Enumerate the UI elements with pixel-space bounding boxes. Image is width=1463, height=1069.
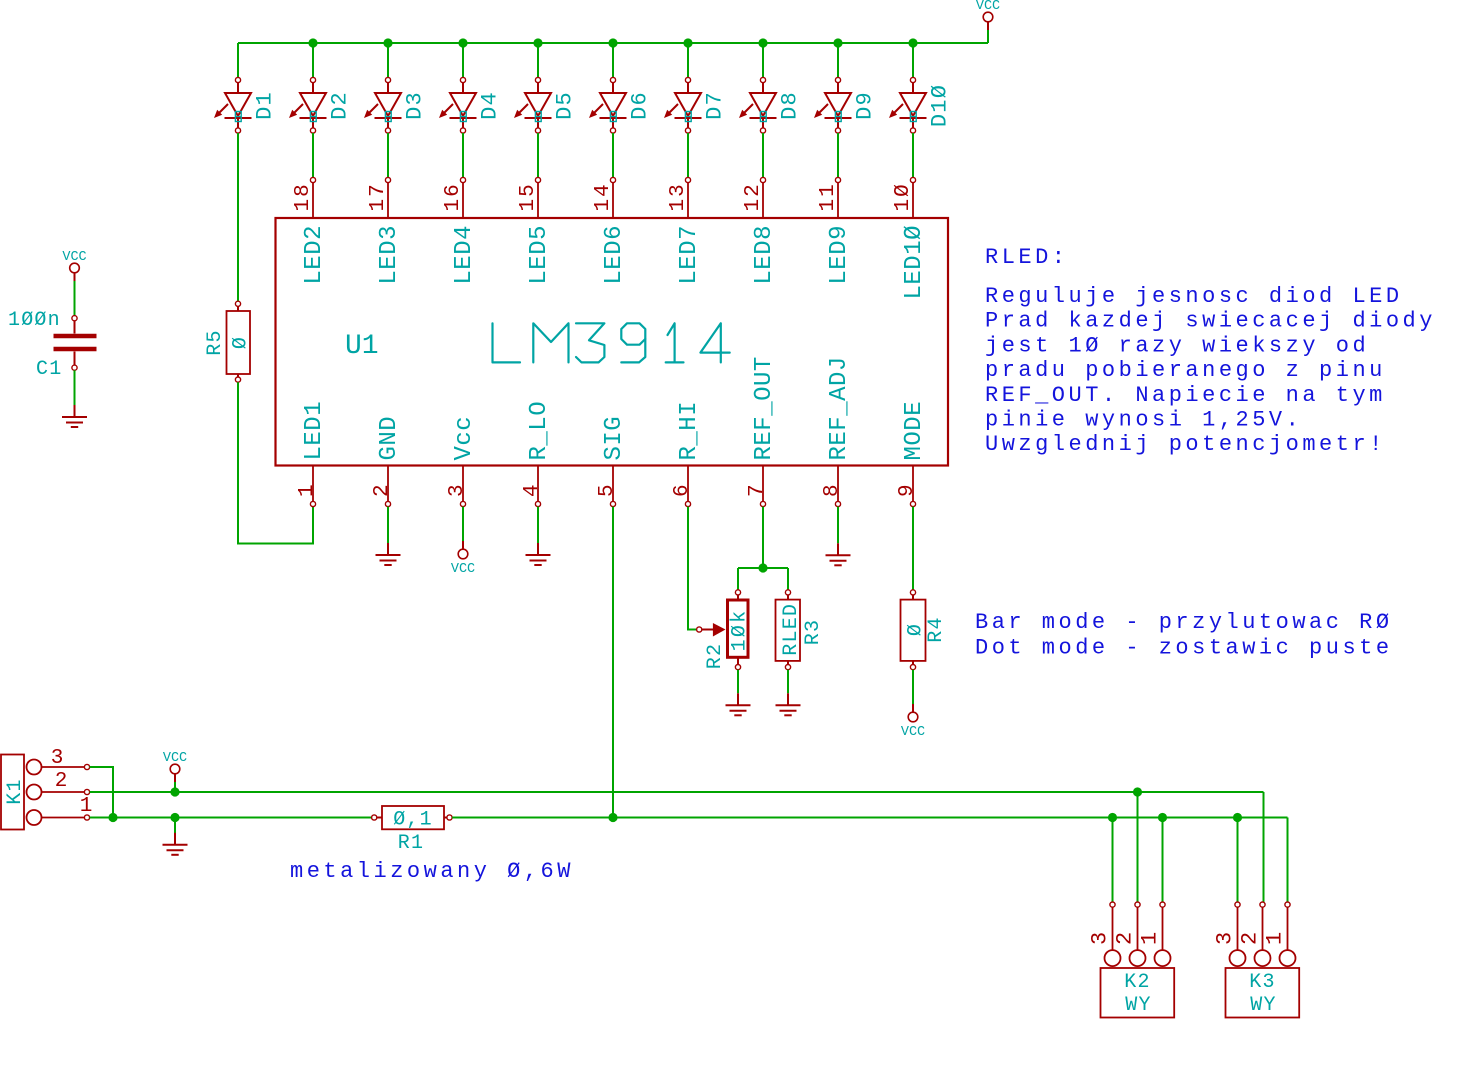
IC U1 LM3914 body	[276, 218, 949, 466]
ground at pin 2	[376, 543, 401, 565]
svg-text:Ø: Ø	[230, 336, 253, 349]
svg-text:Reguluje jesnosc diod LED: Reguluje jesnosc diod LED	[985, 284, 1403, 309]
wire LED to pin x=913	[912, 133, 914, 177]
svg-text:K1: K1	[4, 778, 27, 804]
junction rail x=838	[833, 38, 842, 47]
junction SIG on net	[608, 813, 617, 822]
LED D1	[214, 43, 278, 133]
svg-text:17: 17	[367, 182, 390, 211]
svg-text:REF_OUT. Napiecie na tym: REF_OUT. Napiecie na tym	[985, 383, 1386, 408]
pin 18 (LED2)	[292, 177, 328, 284]
LED D3	[364, 43, 428, 133]
svg-text:LED4: LED4	[451, 225, 478, 285]
svg-text:D9: D9	[853, 91, 878, 120]
svg-text:1Øk: 1Øk	[729, 609, 752, 652]
svg-text:18: 18	[292, 182, 315, 211]
wire pin8 to ground	[837, 507, 839, 544]
wire VCC to C1	[74, 281, 76, 316]
svg-text:D1Ø: D1Ø	[928, 84, 953, 127]
svg-text:K3: K3	[1249, 971, 1275, 994]
note RLED explanation text	[985, 245, 1436, 457]
svg-text:3: 3	[51, 747, 64, 770]
wire LED to pin x=463	[462, 133, 464, 177]
LED D5	[514, 43, 578, 133]
svg-text:1ØØn: 1ØØn	[8, 309, 61, 332]
wire LED to pin x=763	[762, 133, 764, 177]
svg-text:12: 12	[742, 182, 765, 211]
svg-text:D4: D4	[478, 91, 503, 120]
svg-text:VCC: VCC	[901, 725, 925, 740]
wire LED to pin x=313	[312, 133, 314, 177]
value LM3914 (stroke glyphs)	[493, 323, 730, 362]
ground at R2	[726, 693, 751, 715]
wire R4 to VCC	[912, 670, 914, 708]
wire K1 pin2 net (long)	[90, 791, 1264, 793]
wire C1 to ground	[74, 370, 76, 405]
svg-text:R_HI: R_HI	[676, 401, 703, 461]
svg-text:16: 16	[442, 182, 465, 211]
svg-text:14: 14	[592, 182, 615, 211]
wire to K3 pin3	[1237, 818, 1239, 903]
wire node to R2	[737, 568, 739, 590]
junction rail x=388	[383, 38, 392, 47]
svg-text:9: 9	[896, 482, 919, 497]
wire pin9 to R4	[912, 507, 914, 590]
wire pin7 to node	[762, 507, 764, 568]
ground at pin 8	[826, 543, 851, 565]
pin 10 (LED10)	[892, 177, 928, 299]
junction rail x=913	[908, 38, 917, 47]
wire node to R3	[787, 568, 789, 590]
ground at R3	[776, 693, 801, 715]
svg-text:LED1: LED1	[301, 401, 328, 461]
junction rail x=538	[533, 38, 542, 47]
svg-text:D3: D3	[403, 91, 428, 120]
wire to K3 pin2	[1263, 792, 1265, 902]
pin 7 (REF_OUT)	[746, 356, 778, 506]
svg-text:R5: R5	[204, 329, 227, 355]
svg-text:Ø,1: Ø,1	[393, 809, 433, 832]
power VCC near K1	[163, 751, 187, 782]
pin 14 (LED6)	[592, 177, 628, 284]
LED D2	[289, 43, 353, 133]
connector K3 (WY)	[1213, 902, 1300, 1018]
svg-text:5: 5	[596, 482, 619, 497]
wire to K2 pin2	[1137, 792, 1139, 902]
junction rail x=688	[683, 38, 692, 47]
svg-text:REF_ADJ: REF_ADJ	[826, 356, 853, 460]
potentiometer R2 value 10k	[697, 590, 752, 670]
wire pin1 net to R1	[90, 817, 372, 819]
svg-text:LED2: LED2	[301, 225, 328, 285]
svg-text:2: 2	[1113, 932, 1138, 945]
wire LED to pin x=388	[387, 133, 389, 177]
svg-text:2: 2	[1238, 932, 1263, 945]
wire pin2 to ground	[387, 507, 389, 543]
svg-text:C1: C1	[36, 358, 62, 381]
wire LED to pin x=838	[837, 133, 839, 177]
svg-text:jest 1Ø razy wiekszy od: jest 1Ø razy wiekszy od	[985, 333, 1369, 358]
junction K2 pin1	[1158, 813, 1167, 822]
LED D4	[439, 43, 503, 133]
svg-text:REF_OUT: REF_OUT	[751, 356, 778, 460]
svg-text:3: 3	[1088, 932, 1113, 945]
wire VCC rail	[238, 42, 988, 44]
svg-text:R4: R4	[925, 616, 948, 642]
svg-text:Uwzglednij potencjometr!: Uwzglednij potencjometr!	[985, 432, 1386, 457]
junction rail x=763	[758, 38, 767, 47]
pin 2 (GND)	[371, 416, 403, 507]
svg-text:pradu pobieranego z pinu: pradu pobieranego z pinu	[985, 358, 1386, 383]
junction K1 pin3/pin1	[108, 813, 117, 822]
svg-text:VCC: VCC	[976, 0, 1000, 14]
wire LED to pin x=613	[612, 133, 614, 177]
svg-text:metalizowany Ø,6W: metalizowany Ø,6W	[290, 859, 574, 884]
svg-text:Vcc: Vcc	[451, 416, 478, 461]
svg-text:8: 8	[821, 482, 844, 497]
note Bar/Dot mode text	[975, 610, 1393, 661]
svg-text:R_LO: R_LO	[526, 401, 553, 461]
svg-text:11: 11	[817, 182, 840, 211]
svg-text:1: 1	[80, 795, 93, 818]
wire to K3 pin1	[1287, 818, 1289, 903]
pin 9 (MODE)	[896, 401, 928, 507]
pin 16 (LED4)	[442, 177, 478, 284]
wire to K2 pin3	[1112, 818, 1114, 903]
wire pin4 to ground	[537, 507, 539, 543]
junction rail x=313	[308, 38, 317, 47]
ground near K1	[163, 833, 188, 855]
wire LED to pin x=538	[537, 133, 539, 177]
resistor R5 value 0	[204, 301, 253, 382]
junction rail x=613	[608, 38, 617, 47]
LED D7	[664, 43, 728, 133]
svg-text:Prad kazdej swiecacej diody: Prad kazdej swiecacej diody	[985, 309, 1436, 334]
svg-text:3: 3	[446, 482, 469, 497]
svg-text:2: 2	[55, 770, 68, 793]
svg-text:R3: R3	[802, 619, 825, 645]
svg-text:MODE: MODE	[901, 401, 928, 461]
svg-text:R2: R2	[704, 643, 727, 669]
svg-text:K2: K2	[1124, 971, 1150, 994]
LED D8	[739, 43, 803, 133]
svg-text:WY: WY	[1250, 994, 1276, 1017]
svg-text:6: 6	[671, 482, 694, 497]
svg-text:D6: D6	[628, 91, 653, 120]
svg-text:3: 3	[1213, 932, 1238, 945]
junction ground on pin1 net	[170, 813, 179, 822]
pin 4 (R_LO)	[521, 401, 553, 507]
svg-text:1: 1	[1263, 932, 1288, 945]
svg-text:RLED:: RLED:	[985, 245, 1069, 270]
pin 6 (R_HI)	[671, 401, 703, 507]
svg-text:LED9: LED9	[826, 225, 853, 285]
svg-text:4: 4	[521, 482, 544, 497]
wire R1 to outputs	[452, 817, 1287, 819]
wire VCC drop	[987, 30, 989, 43]
power VCC at R4 (inverted)	[901, 704, 925, 740]
svg-text:WY: WY	[1125, 994, 1151, 1017]
svg-text:GND: GND	[376, 416, 403, 461]
ground at C1	[62, 405, 87, 427]
pin 17 (LED3)	[367, 177, 403, 284]
svg-text:1: 1	[296, 482, 319, 497]
resistor R4 value 0	[901, 590, 949, 670]
svg-text:D2: D2	[328, 91, 353, 120]
svg-text:LED8: LED8	[751, 225, 778, 285]
svg-text:pinie wynosi 1,25V.: pinie wynosi 1,25V.	[985, 408, 1302, 433]
power VCC top right	[976, 0, 1000, 30]
power VCC at pin 3	[451, 541, 475, 577]
ground at pin 4	[526, 543, 551, 565]
svg-text:RLED: RLED	[780, 603, 803, 656]
wire pin3 to VCC	[462, 507, 464, 541]
resistor R1 value 0,1	[372, 806, 453, 855]
pin 5 (SIG)	[596, 416, 628, 507]
wire LED to pin x=688	[687, 133, 689, 177]
wire node horizontal	[738, 567, 788, 569]
wire D1 to R5	[237, 133, 239, 301]
wire R2 to ground	[737, 670, 739, 694]
svg-text:1Ø: 1Ø	[892, 182, 915, 211]
svg-text:VCC: VCC	[163, 751, 187, 766]
pin 3 (Vcc)	[446, 416, 478, 507]
wire R5 to pin 1	[238, 382, 313, 543]
pin 12 (LED8)	[742, 177, 778, 284]
pin 13 (LED7)	[667, 177, 703, 284]
junction K3 pin3	[1233, 813, 1242, 822]
svg-text:15: 15	[517, 182, 540, 211]
svg-text:Dot mode - zostawic puste: Dot mode - zostawic puste	[975, 636, 1393, 661]
power VCC at C1	[62, 250, 86, 281]
LED D9	[814, 43, 878, 133]
wire K1 pin3 to pin1 net	[90, 767, 113, 818]
wire to K2 pin1	[1162, 818, 1164, 903]
resistor R3 value RLED	[776, 590, 826, 670]
svg-text:D1: D1	[253, 91, 278, 120]
pin 1 (LED1)	[296, 401, 328, 507]
svg-text:D5: D5	[553, 91, 578, 120]
junction K2 pin3	[1108, 813, 1117, 822]
svg-text:LED6: LED6	[601, 225, 628, 285]
svg-text:VCC: VCC	[451, 562, 475, 577]
svg-text:U1: U1	[345, 331, 379, 362]
wire VCC stub	[174, 782, 176, 792]
svg-text:D7: D7	[703, 91, 728, 120]
svg-text:Bar mode - przylutowac RØ: Bar mode - przylutowac RØ	[975, 610, 1393, 635]
pin 8 (REF_ADJ)	[821, 356, 853, 506]
capacitor C1 100n	[8, 309, 97, 381]
svg-text:SIG: SIG	[601, 416, 628, 461]
svg-text:LED7: LED7	[676, 225, 703, 285]
svg-text:D8: D8	[778, 91, 803, 120]
LED D6	[589, 43, 653, 133]
svg-text:LED3: LED3	[376, 225, 403, 285]
wire pin6 to R2 wiper	[688, 507, 697, 630]
svg-text:R1: R1	[398, 832, 424, 855]
svg-text:1: 1	[1138, 932, 1163, 945]
svg-text:LED1Ø: LED1Ø	[901, 225, 928, 300]
junction REF_OUT node	[758, 563, 767, 572]
svg-text:2: 2	[371, 482, 394, 497]
svg-text:Ø: Ø	[905, 623, 928, 636]
pin 11 (LED9)	[817, 177, 853, 284]
svg-text:LED5: LED5	[526, 225, 553, 285]
wire SIG net	[612, 507, 614, 818]
svg-text:13: 13	[667, 182, 690, 211]
junction rail x=463	[458, 38, 467, 47]
junction K2 pin2	[1133, 787, 1142, 796]
junction VCC on pin2 net	[170, 787, 179, 796]
connector K1	[1, 747, 92, 830]
svg-text:VCC: VCC	[62, 250, 86, 265]
connector K2 (WY)	[1088, 902, 1175, 1018]
LED D10	[889, 43, 953, 133]
wire to ground near K1	[174, 818, 176, 834]
pin 15 (LED5)	[517, 177, 553, 284]
wire R3 to ground	[787, 670, 789, 694]
svg-text:7: 7	[746, 482, 769, 497]
